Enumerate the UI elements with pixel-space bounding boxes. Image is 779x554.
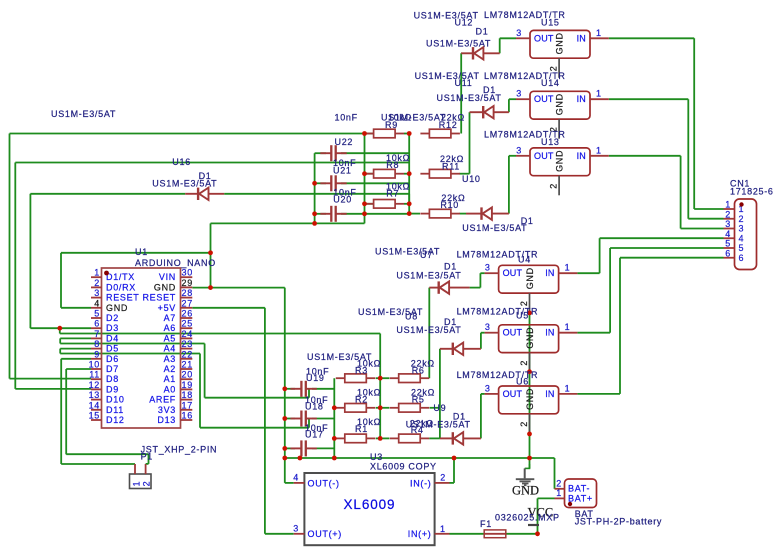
svg-text:U21: U21 xyxy=(333,165,352,175)
svg-text:U15: U15 xyxy=(541,17,560,27)
svg-text:2: 2 xyxy=(519,360,529,366)
svg-text:US1M-E3/5AT: US1M-E3/5AT xyxy=(426,38,491,48)
svg-text:1: 1 xyxy=(596,145,602,155)
svg-text:5: 5 xyxy=(739,243,745,253)
svg-text:GND: GND xyxy=(525,267,535,289)
svg-text:9: 9 xyxy=(94,349,100,359)
svg-text:OUT(+): OUT(+) xyxy=(308,529,342,539)
svg-text:U22: U22 xyxy=(335,137,354,147)
svg-text:20: 20 xyxy=(182,370,193,380)
svg-text:U1: U1 xyxy=(135,247,148,257)
svg-text:27: 27 xyxy=(182,298,193,308)
svg-text:R10: R10 xyxy=(440,200,459,210)
svg-text:IN: IN xyxy=(545,268,554,278)
svg-text:1: 1 xyxy=(565,263,571,273)
svg-text:GND: GND xyxy=(154,282,176,292)
svg-text:OUT: OUT xyxy=(534,33,554,43)
svg-text:4: 4 xyxy=(293,473,299,483)
svg-text:GND: GND xyxy=(555,150,565,172)
svg-text:US1M-E3/5AT: US1M-E3/5AT xyxy=(396,325,461,335)
svg-text:GND: GND xyxy=(106,303,128,313)
svg-text:2: 2 xyxy=(725,209,731,219)
svg-text:4: 4 xyxy=(725,229,731,239)
svg-text:R3: R3 xyxy=(355,365,368,375)
svg-text:2: 2 xyxy=(549,183,559,189)
svg-text:3: 3 xyxy=(739,224,745,234)
svg-text:ARDUINO_NANO: ARDUINO_NANO xyxy=(135,258,216,268)
svg-text:A2: A2 xyxy=(164,364,176,374)
svg-text:U6: U6 xyxy=(516,377,529,387)
svg-text:5: 5 xyxy=(94,309,100,319)
svg-text:19: 19 xyxy=(182,380,193,390)
svg-text:D9: D9 xyxy=(106,384,119,394)
svg-text:6: 6 xyxy=(725,248,731,258)
svg-text:VIN: VIN xyxy=(159,272,176,282)
svg-text:2: 2 xyxy=(142,481,152,487)
svg-text:OUT: OUT xyxy=(534,94,554,104)
svg-text:0326025.MXP: 0326025.MXP xyxy=(495,512,560,522)
svg-text:R1: R1 xyxy=(355,424,368,434)
svg-text:U11: U11 xyxy=(455,78,473,88)
svg-text:P1: P1 xyxy=(141,451,153,461)
svg-text:4: 4 xyxy=(739,233,745,243)
svg-text:2: 2 xyxy=(94,278,100,288)
svg-text:US1M-E3/5AT: US1M-E3/5AT xyxy=(51,109,116,119)
svg-text:D5: D5 xyxy=(106,344,119,354)
svg-text:1: 1 xyxy=(596,28,602,38)
svg-text:IN(-): IN(-) xyxy=(410,478,432,488)
svg-text:BAT-: BAT- xyxy=(568,484,590,494)
svg-text:XL6009: XL6009 xyxy=(344,497,396,512)
svg-text:28: 28 xyxy=(182,288,193,298)
svg-text:R9: R9 xyxy=(385,120,398,130)
svg-text:3: 3 xyxy=(725,219,731,229)
svg-text:GND: GND xyxy=(555,32,565,54)
svg-text:A5: A5 xyxy=(164,333,176,343)
svg-text:18: 18 xyxy=(182,390,193,400)
svg-text:D13: D13 xyxy=(157,415,176,425)
svg-text:OUT(-): OUT(-) xyxy=(308,478,340,488)
svg-text:GND: GND xyxy=(555,93,565,115)
svg-text:8: 8 xyxy=(94,339,100,349)
svg-text:171825-6: 171825-6 xyxy=(730,187,774,197)
svg-text:2: 2 xyxy=(556,479,562,489)
svg-text:US1M-E3/5AT: US1M-E3/5AT xyxy=(437,93,502,103)
svg-text:D7: D7 xyxy=(106,364,119,374)
svg-text:U9: U9 xyxy=(433,403,446,413)
svg-text:U4: U4 xyxy=(518,255,531,265)
svg-text:24: 24 xyxy=(182,329,193,339)
svg-text:1: 1 xyxy=(565,322,571,332)
svg-text:D6: D6 xyxy=(106,354,119,364)
svg-text:15: 15 xyxy=(89,411,100,421)
svg-text:D2: D2 xyxy=(106,313,119,323)
svg-text:1: 1 xyxy=(565,383,571,393)
svg-text:6: 6 xyxy=(739,253,745,263)
svg-text:29: 29 xyxy=(182,278,193,288)
svg-text:4: 4 xyxy=(94,298,100,308)
svg-text:U13: U13 xyxy=(541,137,560,147)
svg-text:1: 1 xyxy=(725,200,731,210)
svg-text:3V3: 3V3 xyxy=(158,405,176,415)
svg-text:25: 25 xyxy=(182,319,193,329)
svg-text:21: 21 xyxy=(182,360,193,370)
svg-text:A7: A7 xyxy=(164,313,176,323)
svg-text:IN: IN xyxy=(545,389,554,399)
svg-text:13: 13 xyxy=(89,390,100,400)
svg-text:U17: U17 xyxy=(305,430,324,440)
svg-text:2: 2 xyxy=(739,214,745,224)
svg-text:GND: GND xyxy=(525,388,535,410)
svg-text:R12: R12 xyxy=(439,120,458,130)
svg-text:2: 2 xyxy=(519,421,529,427)
svg-text:D1: D1 xyxy=(476,27,489,37)
svg-text:D10: D10 xyxy=(106,395,125,405)
svg-text:D12: D12 xyxy=(106,415,125,425)
svg-text:A1: A1 xyxy=(164,374,176,384)
svg-text:6: 6 xyxy=(94,319,100,329)
svg-text:3: 3 xyxy=(293,524,299,534)
svg-text:R5: R5 xyxy=(412,394,425,404)
svg-text:GND: GND xyxy=(512,484,539,498)
svg-text:7: 7 xyxy=(94,329,100,339)
svg-text:3: 3 xyxy=(516,28,522,38)
svg-text:14: 14 xyxy=(89,400,100,410)
svg-text:1: 1 xyxy=(132,481,142,487)
svg-text:U14: U14 xyxy=(541,78,560,88)
svg-text:+5V: +5V xyxy=(158,303,176,313)
svg-text:R2: R2 xyxy=(355,394,368,404)
svg-text:R7: R7 xyxy=(386,189,399,199)
svg-text:R8: R8 xyxy=(386,160,399,170)
svg-text:U8: U8 xyxy=(405,312,418,322)
svg-text:IN: IN xyxy=(577,33,586,43)
svg-text:23: 23 xyxy=(182,339,193,349)
svg-text:GND: GND xyxy=(525,327,535,349)
svg-text:BAT+: BAT+ xyxy=(568,494,593,504)
svg-text:U10: U10 xyxy=(462,174,481,184)
svg-text:U12: U12 xyxy=(455,17,474,27)
svg-text:1: 1 xyxy=(94,268,100,278)
svg-text:OUT: OUT xyxy=(503,268,523,278)
svg-text:US1M-E3/5AT: US1M-E3/5AT xyxy=(462,223,527,233)
svg-text:3: 3 xyxy=(485,322,491,332)
svg-text:RESET: RESET xyxy=(142,293,176,303)
svg-text:A4: A4 xyxy=(164,344,176,354)
svg-text:11: 11 xyxy=(89,370,100,380)
svg-text:U18: U18 xyxy=(305,402,324,412)
svg-text:IN(+): IN(+) xyxy=(408,529,432,539)
svg-text:5: 5 xyxy=(725,239,731,249)
svg-text:U20: U20 xyxy=(333,195,352,205)
svg-text:D0/RX: D0/RX xyxy=(106,282,136,292)
svg-text:3: 3 xyxy=(516,89,522,99)
svg-text:US1M-E3/5AT: US1M-E3/5AT xyxy=(396,270,461,280)
svg-text:2: 2 xyxy=(519,300,529,306)
svg-text:26: 26 xyxy=(182,309,193,319)
svg-text:3: 3 xyxy=(516,145,522,155)
svg-text:U16: U16 xyxy=(172,157,191,167)
svg-text:A6: A6 xyxy=(164,323,176,333)
svg-text:IN: IN xyxy=(577,151,586,161)
svg-text:JST-PH-2P-battery: JST-PH-2P-battery xyxy=(575,517,662,527)
svg-text:OUT: OUT xyxy=(534,151,554,161)
svg-text:XL6009 COPY: XL6009 COPY xyxy=(370,461,437,471)
svg-text:OUT: OUT xyxy=(503,328,523,338)
svg-text:RESET: RESET xyxy=(106,293,140,303)
svg-text:AREF: AREF xyxy=(149,395,176,405)
svg-text:R6: R6 xyxy=(412,365,425,375)
svg-text:1: 1 xyxy=(440,524,446,534)
svg-text:D11: D11 xyxy=(106,405,124,415)
svg-text:A0: A0 xyxy=(164,384,176,394)
svg-text:D4: D4 xyxy=(106,333,119,343)
svg-text:F1: F1 xyxy=(480,519,492,529)
svg-text:US1M-E3/5AT: US1M-E3/5AT xyxy=(152,179,217,189)
svg-text:10nF: 10nF xyxy=(335,113,358,123)
svg-text:R11: R11 xyxy=(442,161,460,171)
svg-text:3: 3 xyxy=(485,263,491,273)
svg-text:1: 1 xyxy=(596,89,602,99)
svg-text:3: 3 xyxy=(485,383,491,393)
svg-text:U5: U5 xyxy=(516,311,529,321)
svg-text:D8: D8 xyxy=(106,374,119,384)
svg-text:3: 3 xyxy=(94,288,100,298)
svg-text:U19: U19 xyxy=(306,373,325,383)
svg-text:OUT: OUT xyxy=(503,389,523,399)
svg-text:R4: R4 xyxy=(411,425,424,435)
svg-text:17: 17 xyxy=(182,400,193,410)
svg-text:1: 1 xyxy=(556,488,562,498)
svg-text:A3: A3 xyxy=(164,354,176,364)
svg-text:30: 30 xyxy=(182,268,193,278)
svg-text:16: 16 xyxy=(182,411,193,421)
svg-text:12: 12 xyxy=(89,380,100,390)
svg-text:U7: U7 xyxy=(420,250,433,260)
svg-text:IN: IN xyxy=(545,328,554,338)
svg-text:D3: D3 xyxy=(106,323,119,333)
svg-text:2: 2 xyxy=(440,473,446,483)
svg-text:22: 22 xyxy=(182,349,193,359)
svg-text:IN: IN xyxy=(577,94,586,104)
svg-text:D1/TX: D1/TX xyxy=(106,272,135,282)
svg-text:10: 10 xyxy=(89,360,100,370)
